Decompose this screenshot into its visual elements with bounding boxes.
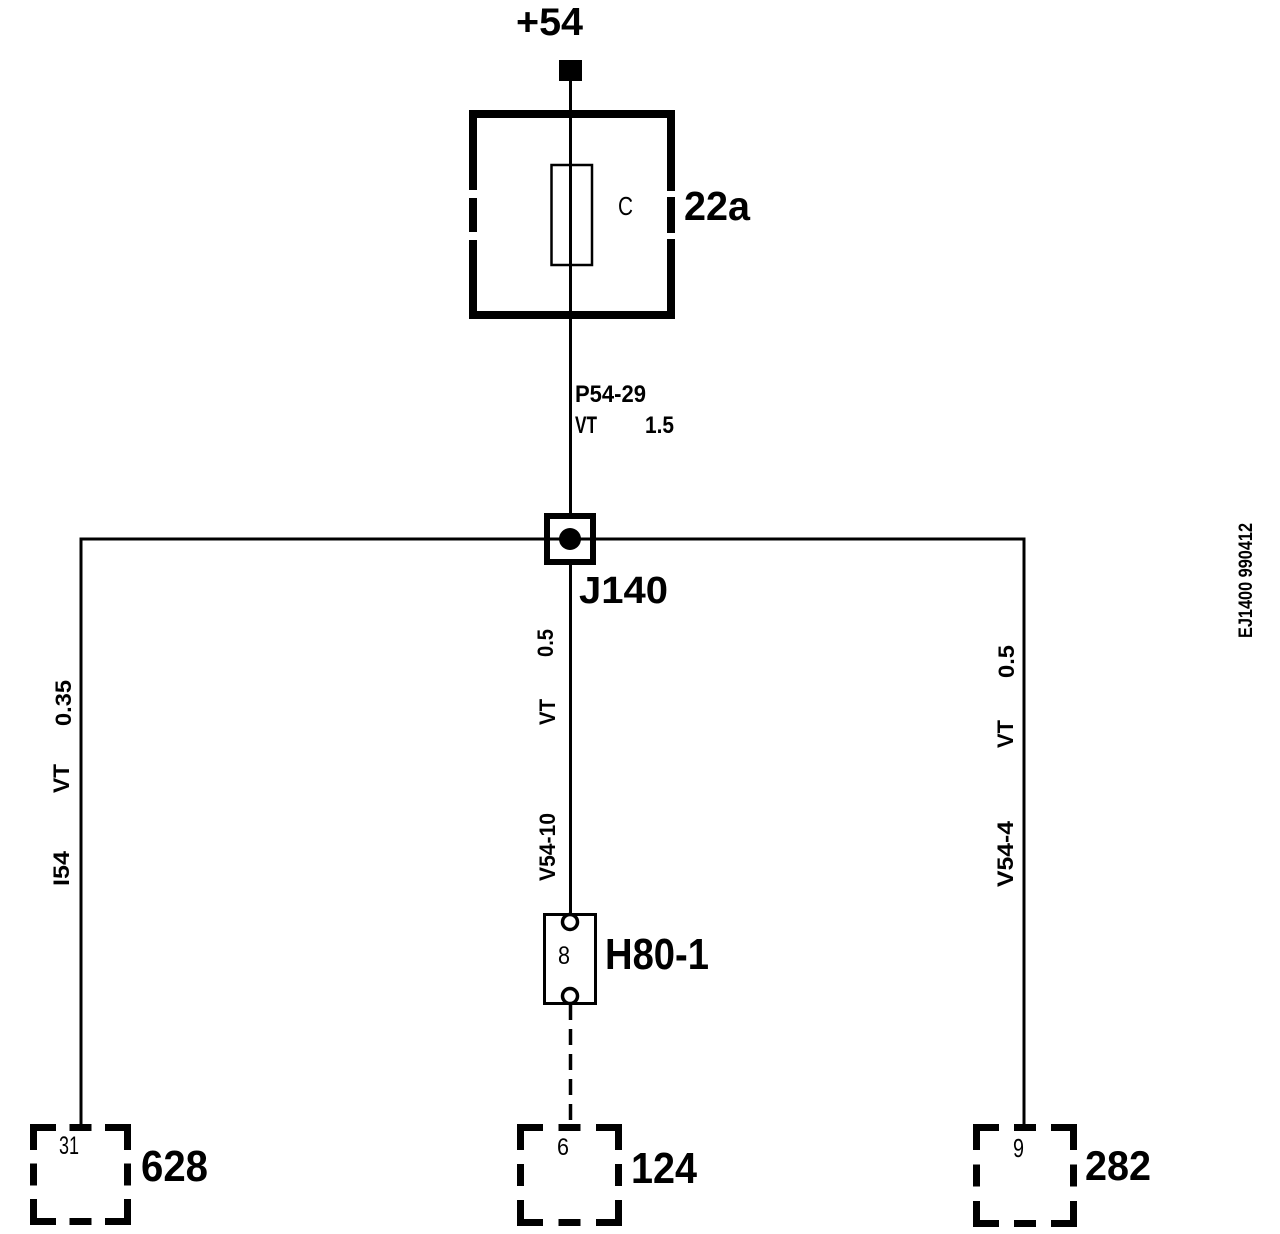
svg-text:282: 282 (1085, 1142, 1151, 1189)
svg-text:VT: VT (535, 698, 560, 725)
svg-text:VT: VT (575, 412, 597, 439)
connector 124 (dashed box) (517, 1124, 622, 1226)
svg-text:8: 8 (558, 942, 570, 970)
svg-text:J140: J140 (579, 570, 668, 612)
junction J140 box (547, 516, 593, 562)
left branch wire down to connector 628 (80, 538, 83, 1125)
svg-text:124: 124 (631, 1144, 697, 1193)
connector 282 (dashed box) (973, 1124, 1077, 1227)
component H80-1 body (545, 915, 596, 1004)
connector 628 (dashed box) (30, 1124, 131, 1225)
svg-text:VT: VT (49, 763, 74, 793)
dashed wire: H80-1 to connector 124 (569, 1004, 573, 1124)
horizontal bus wire from left branch to right branch (81, 538, 1024, 541)
svg-text:P54-29: P54-29 (575, 381, 646, 408)
svg-text:I54: I54 (49, 850, 74, 886)
svg-text:628: 628 (141, 1142, 208, 1191)
svg-text:VT: VT (993, 719, 1018, 748)
svg-text:V54-10: V54-10 (535, 813, 560, 881)
right branch wire down to connector 282 (1023, 538, 1026, 1125)
svg-text:0.5: 0.5 (533, 629, 558, 657)
svg-text:9: 9 (1013, 1133, 1024, 1163)
svg-text:C: C (618, 191, 633, 221)
svg-text:H80-1: H80-1 (605, 930, 709, 979)
H80-1 bottom pin circle (563, 989, 578, 1004)
svg-text:6: 6 (557, 1134, 569, 1161)
terminal square +54 (559, 60, 582, 81)
svg-text:EJ1400 990412: EJ1400 990412 (1236, 523, 1257, 638)
fuse holder 22a (dashed thick box) (469, 110, 675, 319)
wire: +54 terminal to junction J140 (vertical main) (569, 81, 572, 516)
H80-1 top pin circle (563, 915, 578, 930)
svg-text:0.5: 0.5 (994, 645, 1019, 678)
svg-text:V54-4: V54-4 (993, 820, 1018, 887)
svg-text:1.5: 1.5 (645, 412, 674, 439)
svg-text:31: 31 (59, 1132, 79, 1160)
svg-text:0.35: 0.35 (51, 680, 76, 726)
svg-text:22a: 22a (684, 183, 751, 229)
fuse element rectangle (552, 165, 593, 265)
junction J140 solder dot (559, 528, 581, 550)
svg-text:+54: +54 (516, 1, 583, 44)
wire: junction J140 down to H80-1 (569, 562, 572, 915)
